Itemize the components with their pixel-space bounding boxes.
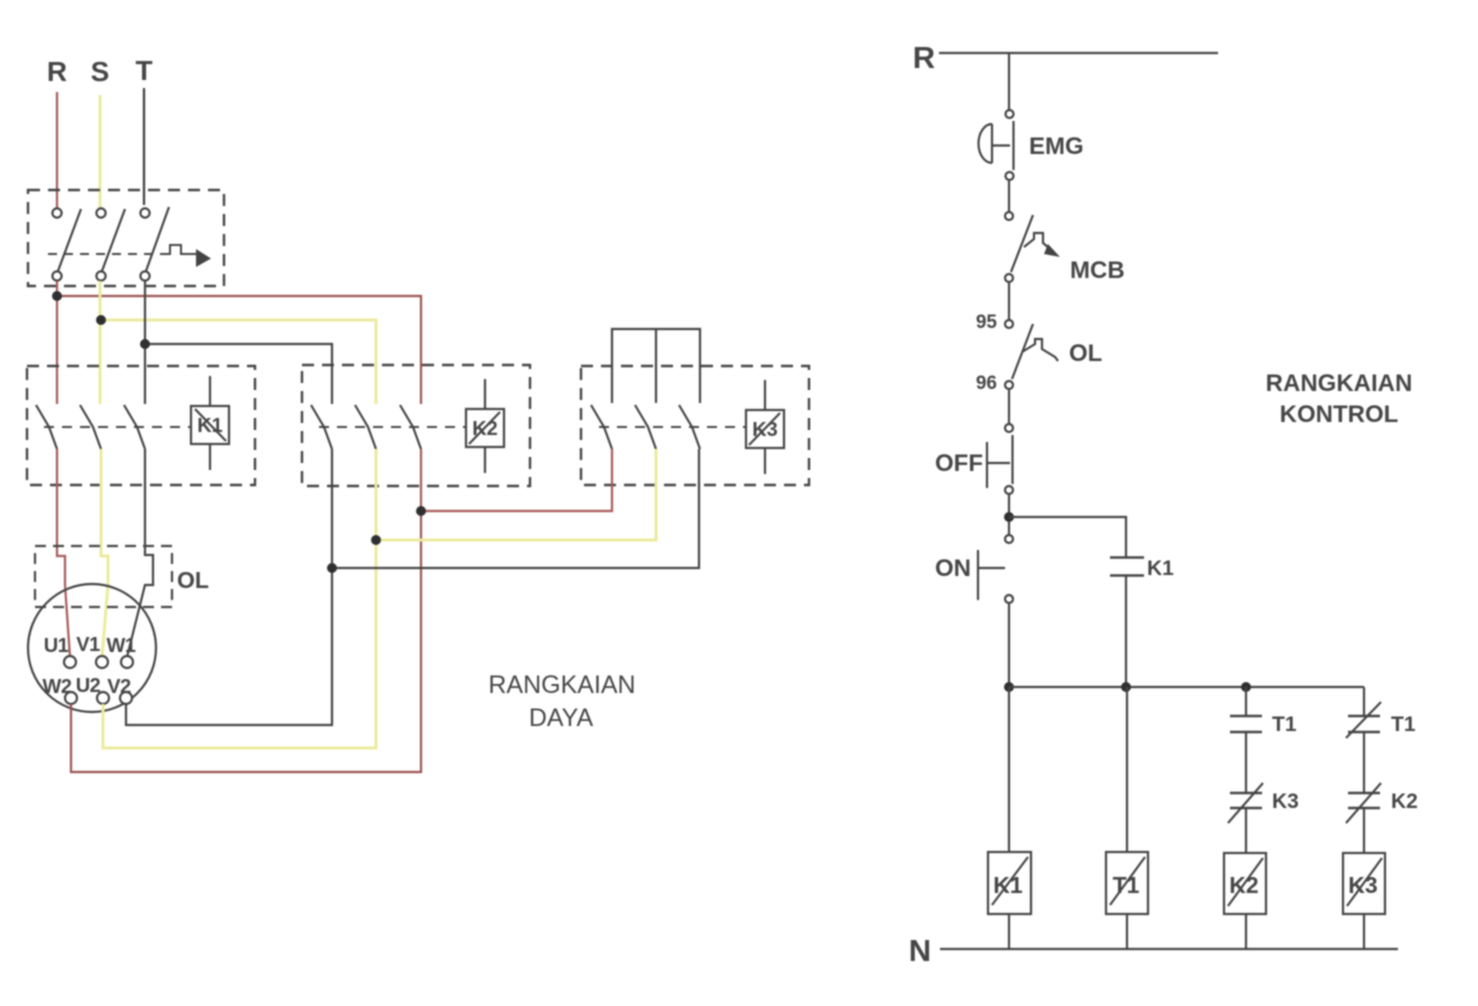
contactor K1 pole 2 blade — [80, 405, 101, 449]
motor M circle — [28, 584, 156, 712]
wire R bus to EMG — [1008, 53, 1010, 110]
node aux branch — [1004, 512, 1014, 522]
contactor K2 pole 3 blade — [400, 405, 421, 449]
wire S K1 output to OL — [101, 449, 108, 657]
wire branch4 top — [1363, 687, 1365, 716]
svg-text:N: N — [909, 933, 931, 968]
caption RANGKAIAN KONTROL — [1266, 370, 1413, 428]
breaker pole 2 — [96, 208, 125, 280]
svg-text:T1: T1 — [1113, 872, 1140, 898]
svg-text:R: R — [47, 56, 67, 87]
wire T1 NO to K3 NC — [1245, 732, 1247, 793]
coil T1 — [1106, 852, 1148, 914]
wire to coil T1 — [1126, 687, 1128, 852]
svg-text:OL: OL — [1069, 340, 1102, 367]
wire black down to motor V2 — [126, 568, 332, 725]
node bus left — [1004, 682, 1014, 692]
interlock contact K2 NC — [1346, 783, 1418, 823]
wire R down to K1 — [56, 296, 58, 404]
node red junction — [416, 506, 426, 516]
svg-text:K1: K1 — [197, 415, 223, 437]
wire K2 NC to coil K3 — [1363, 808, 1365, 853]
svg-text:K2: K2 — [1391, 790, 1418, 813]
node S junction — [96, 315, 106, 325]
svg-text:96: 96 — [976, 373, 997, 394]
contactor K3 pole 1 blade — [591, 405, 612, 449]
contactor K3 linkage — [599, 426, 746, 428]
svg-text:K2: K2 — [472, 418, 498, 440]
wire T down to K1 — [144, 281, 146, 404]
wire K3 NC to coil K2 — [1245, 808, 1247, 853]
node T junction — [140, 339, 150, 349]
wire to coil K1 — [1008, 687, 1010, 852]
svg-text:T1: T1 — [1272, 713, 1297, 736]
wire red down to motor W2 — [71, 511, 421, 772]
timer contact T1 NC — [1346, 702, 1416, 738]
motor terminal U1 — [44, 635, 76, 668]
control bus horizontal — [1009, 686, 1364, 688]
breaker pole 1 — [52, 208, 81, 280]
svg-text:V1: V1 — [76, 634, 100, 656]
contactor K2 coil box — [466, 379, 504, 473]
wire R branch horizontal to K2 — [57, 296, 421, 404]
svg-text:DAYA: DAYA — [529, 704, 594, 732]
svg-text:KONTROL: KONTROL — [1280, 401, 1399, 428]
timer contact T1 NO — [1230, 713, 1297, 736]
wire K2 pole1 output to K3 pole3 (black) — [332, 449, 699, 568]
node black junction — [327, 563, 337, 573]
node bus K1-aux — [1121, 682, 1131, 692]
contactor K2 pole 1 blade — [311, 405, 332, 449]
breaker pole 3 — [140, 207, 169, 281]
contactor K2 pole 2 blade — [355, 405, 376, 449]
contactor K3 dashed enclosure — [581, 366, 809, 485]
wire branch to K1 aux — [1009, 517, 1126, 557]
motor terminal W2 — [43, 676, 78, 704]
wire S branch horizontal to K2 — [101, 320, 376, 404]
contactor K1 pole 1 blade — [36, 405, 57, 449]
overload relay OL dashed enclosure — [35, 546, 172, 607]
svg-text:RANGKAIAN: RANGKAIAN — [488, 671, 635, 699]
contactor K3 coil box — [746, 380, 784, 474]
svg-text:S: S — [91, 56, 110, 87]
svg-text:K1: K1 — [993, 872, 1023, 898]
wire OFF to ON node — [1008, 494, 1010, 535]
svg-text:K3: K3 — [1272, 790, 1299, 813]
svg-text:V2: V2 — [107, 676, 131, 698]
svg-text:EMG: EMG — [1029, 133, 1084, 160]
neutral N bus — [940, 948, 1398, 950]
control R bus — [939, 52, 1218, 54]
overload contact OL 95-96 — [976, 312, 1102, 394]
node yellow junction — [371, 535, 381, 545]
wire R phase incoming — [56, 92, 58, 208]
contactor K3 shorting bridge — [612, 329, 700, 403]
svg-text:MCB: MCB — [1070, 257, 1125, 284]
contactor K2 dashed enclosure — [302, 365, 530, 486]
wire ON to bus junction — [1008, 603, 1010, 691]
motor terminal V1 — [76, 634, 108, 668]
breaker contact MCB — [1005, 212, 1125, 284]
emergency stop EMG — [979, 110, 1084, 180]
wire T phase incoming — [143, 88, 145, 205]
wire T branch horizontal to K2 — [145, 344, 332, 404]
svg-text:RANGKAIAN: RANGKAIAN — [1266, 370, 1413, 397]
contactor K2 linkage — [319, 426, 466, 428]
svg-text:K3: K3 — [752, 419, 778, 441]
coil K2 — [1224, 853, 1266, 914]
motor terminal W1 — [107, 635, 136, 668]
svg-text:ON: ON — [935, 555, 971, 582]
contactor K1 dashed enclosure — [27, 366, 255, 485]
wire branch3 top — [1245, 687, 1247, 716]
motor terminal V2 — [107, 676, 132, 704]
wire K2 pole2 output to K3 pole2 (yellow) — [376, 449, 656, 540]
svg-text:U1: U1 — [44, 635, 69, 657]
wire MCB to OL contact — [1008, 282, 1010, 320]
pushbutton ON — [935, 535, 1013, 603]
wire R breaker output to junction — [56, 281, 58, 300]
wire S phase incoming — [99, 95, 102, 208]
coil K1 — [988, 852, 1031, 914]
wire coil K2 to N — [1245, 914, 1247, 949]
svg-text:OFF: OFF — [935, 450, 983, 477]
svg-text:W1: W1 — [107, 635, 136, 657]
breaker linkage and trip arrow — [48, 245, 211, 267]
node R junction — [52, 291, 62, 301]
wire S down to K1 — [99, 281, 102, 404]
wire OL to OFF — [1008, 389, 1010, 424]
aux contact K1 — [1110, 557, 1174, 580]
wire K1 aux to bus — [1125, 575, 1127, 687]
svg-text:T: T — [135, 55, 152, 86]
svg-text:U2: U2 — [76, 675, 101, 697]
motor terminal U2 — [76, 675, 109, 704]
wire T K1 output to OL — [127, 449, 153, 657]
svg-text:T1: T1 — [1391, 713, 1416, 736]
breaker Q1 dashed enclosure — [28, 190, 224, 286]
contactor K1 pole 3 blade — [124, 405, 145, 449]
pushbutton OFF — [935, 424, 1013, 494]
coil K3 — [1343, 853, 1385, 914]
svg-text:K3: K3 — [1348, 872, 1377, 898]
contactor K3 pole 2 blade — [635, 405, 656, 449]
contactor K1 linkage — [44, 426, 191, 428]
contactor K1 coil box — [191, 376, 229, 470]
wire R K1 output to OL — [57, 449, 70, 657]
svg-text:OL: OL — [177, 567, 209, 593]
contactor K3 pole 3 blade — [679, 405, 700, 449]
wire yellow down to motor U2 — [103, 540, 376, 748]
wire coil T1 to N — [1126, 914, 1128, 949]
wire T1 NC to K2 NC — [1363, 732, 1365, 793]
node bus branch3 — [1241, 682, 1251, 692]
wire coil K3 to N — [1363, 914, 1365, 949]
wire EMG to MCB — [1008, 180, 1010, 212]
wire coil K1 to N — [1008, 914, 1010, 949]
caption RANGKAIAN DAYA — [488, 671, 635, 732]
wire K2 pole3 output to K3 pole1 (red) — [421, 449, 612, 511]
svg-text:95: 95 — [976, 312, 998, 333]
svg-text:R: R — [913, 40, 935, 75]
svg-text:K2: K2 — [1229, 872, 1258, 898]
svg-text:K1: K1 — [1147, 557, 1174, 580]
interlock contact K3 NC — [1228, 783, 1299, 823]
svg-text:W2: W2 — [43, 676, 72, 698]
